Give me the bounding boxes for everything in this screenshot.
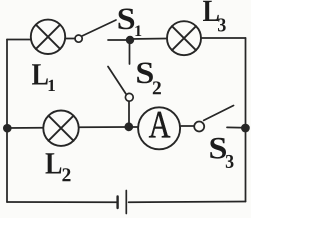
label S1 letter [119,8,135,29]
wire J1 down to S2 [129,40,131,64]
ammeter U1 [138,107,180,149]
wire S3 contact to node J4 [227,126,246,128]
label S2 letter [137,62,153,83]
wire bottom left segment [7,201,117,203]
label L3 subscript [218,18,226,31]
switch S3 [194,106,233,132]
wire right vertical [245,38,247,202]
wire S2 to node J2 [128,101,130,126]
wire J3 to L2 [7,127,42,129]
wire L3 to top-right corner [202,37,246,39]
wire S1 contact to node J1 [108,39,130,41]
wire L2 to J2 to ammeter [80,126,137,128]
label S2 subscript [153,81,161,94]
lamp L2 [43,111,78,146]
node J4 [241,124,250,133]
wire J1 to L3 [130,38,167,41]
switch S2 [108,67,133,102]
lamp L3 [167,21,201,55]
label S3 subscript [226,155,234,168]
label L1 letter [32,64,48,84]
label L1 subscript [49,80,55,91]
wire left vertical [6,40,8,203]
lamp L1 [31,20,65,54]
node J2 [124,122,133,131]
label S1 subscript [135,25,141,36]
node J3 (left rail) [3,124,12,133]
label L2 subscript [62,168,70,181]
wire L1 to S1 [66,38,75,40]
wire bottom right segment [129,201,246,204]
switch S1 [75,20,116,42]
battery cell BT1 [118,191,127,214]
label L2 letter [45,153,61,173]
wire top-left to L1 [7,39,31,41]
ammeter letter A [149,112,170,137]
label L3 letter [203,1,219,21]
label S3 letter [210,138,226,159]
node J1 [126,36,134,44]
wire ammeter to S3 [181,125,194,127]
